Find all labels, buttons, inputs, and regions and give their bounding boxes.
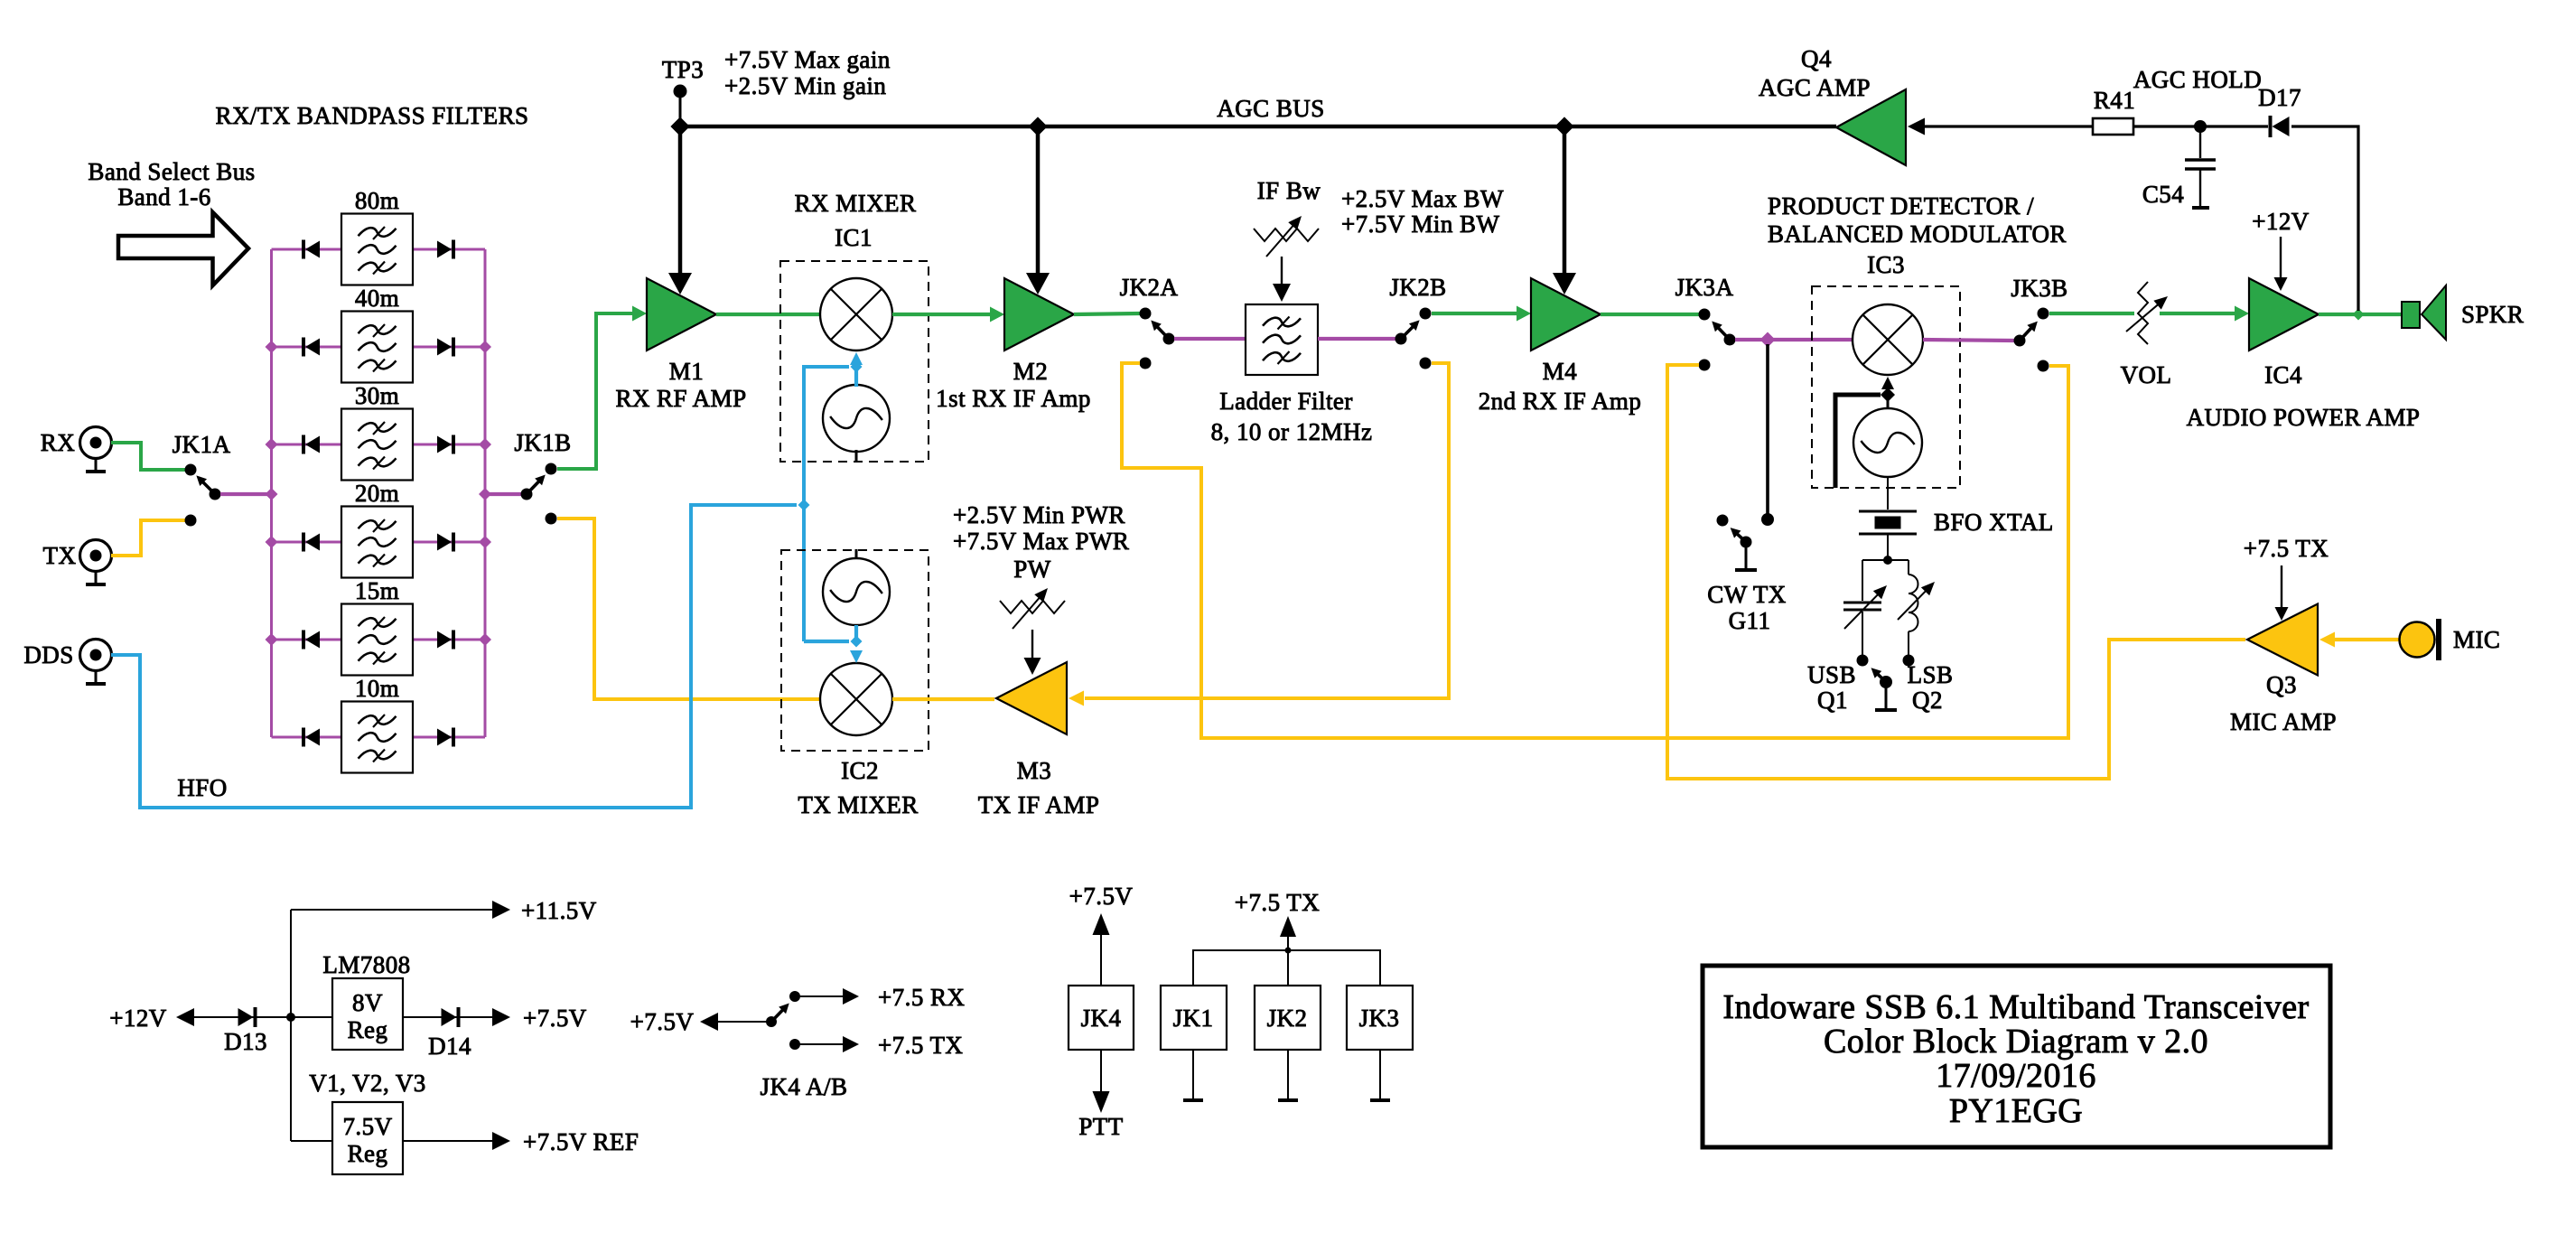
label TX MIXER <box>798 791 918 818</box>
svg-text:20m: 20m <box>355 480 399 507</box>
label Reg (8V) <box>348 1016 388 1043</box>
label V1, V2, V3 <box>309 1070 426 1097</box>
arrow into IC4 (green) <box>2235 306 2249 322</box>
svg-text:HFO: HFO <box>177 774 227 801</box>
wire tank circuit <box>1862 560 1909 655</box>
wire +7.5V to JK4 arm <box>718 1021 771 1023</box>
label JK4 A/B <box>761 1073 848 1100</box>
svg-text:Ladder Filter: Ladder Filter <box>1219 388 1353 415</box>
svg-text:1st RX IF Amp: 1st RX IF Amp <box>936 385 1091 412</box>
svg-text:+7.5 TX: +7.5 TX <box>2244 535 2329 562</box>
block Ladder Filter <box>1246 304 1318 375</box>
svg-text:Q4: Q4 <box>1801 45 1832 72</box>
junction AGC hold <box>2194 120 2207 133</box>
wire CW TX (black) <box>1761 344 1774 526</box>
wire M2 to JK2A (green) <box>1074 313 1140 314</box>
wire 8V Reg to D14 <box>403 1016 492 1018</box>
potentiometer VOL <box>2126 282 2168 344</box>
band select bus arrow <box>118 212 248 285</box>
label 80m <box>355 187 399 214</box>
wire JK3A arm to IC3 (purple) <box>1735 338 1853 341</box>
label 20m <box>355 480 399 507</box>
svg-text:IC2: IC2 <box>841 757 879 784</box>
label IC1 <box>835 224 873 251</box>
svg-text:+7.5V: +7.5V <box>630 1008 695 1035</box>
label D14 <box>428 1033 471 1060</box>
microphone MIC <box>2400 619 2440 660</box>
dashed box IC2 <box>781 550 929 751</box>
svg-text:D17: D17 <box>2258 84 2301 111</box>
junction left bus row 40m <box>266 341 278 353</box>
svg-text:JK4: JK4 <box>1081 1005 1122 1032</box>
svg-text:PRODUCT DETECTOR /: PRODUCT DETECTOR / <box>1768 192 2034 220</box>
diode 15m output <box>437 631 453 650</box>
label 30m <box>355 382 399 409</box>
label USB <box>1807 661 1856 688</box>
label +2.5V Max BW <box>1341 185 1504 212</box>
svg-text:JK2B: JK2B <box>1389 274 1446 301</box>
label +7.5 RX <box>878 984 965 1011</box>
svg-text:+2.5V Min PWR: +2.5V Min PWR <box>953 501 1125 528</box>
label 7.5V <box>342 1113 392 1140</box>
mixer IC1 <box>820 278 892 350</box>
switch JK3A <box>1699 309 1736 371</box>
label 1st RX IF Amp <box>936 385 1091 412</box>
svg-text:IF Bw: IF Bw <box>1257 177 1321 204</box>
svg-text:JK1B: JK1B <box>514 429 571 456</box>
bandpass filter 80m <box>341 214 413 285</box>
arrow into M1 (green) <box>632 306 647 322</box>
wire row 10m left <box>272 736 342 739</box>
svg-text:AUDIO POWER AMP: AUDIO POWER AMP <box>2187 404 2421 431</box>
variable resistor IF Bw <box>1254 216 1319 257</box>
diode 40m input <box>303 338 320 357</box>
arrow +7.5 RX <box>843 988 859 1005</box>
svg-text:PY1EGG: PY1EGG <box>1949 1092 2083 1130</box>
svg-text:Q2: Q2 <box>1912 687 1943 714</box>
wire JK3B lower stub (yellow) <box>2049 366 2068 370</box>
arrow +7.5V (JK4) <box>1093 913 1110 986</box>
wire R41 to Q4 <box>1925 125 2093 127</box>
svg-text:RX MIXER: RX MIXER <box>795 190 917 217</box>
switch CW TX G11 <box>1717 515 1752 569</box>
amplifier M1 RX RF AMP <box>647 278 716 350</box>
svg-text:M3: M3 <box>1017 757 1051 784</box>
svg-text:MIC: MIC <box>2453 626 2500 653</box>
wire row 80m right <box>413 248 485 251</box>
wire row 20m right <box>413 541 485 544</box>
switch JK1B <box>521 463 557 525</box>
svg-text:Indoware SSB 6.1 Multiband Tra: Indoware SSB 6.1 Multiband Transceiver <box>1722 988 2309 1026</box>
label +7.5V Max gain <box>724 46 891 73</box>
wire IC3 mixer to JK3B (purple) <box>1923 340 2014 341</box>
label TP3 <box>662 56 704 83</box>
diode 80m input <box>303 240 320 259</box>
svg-text:IC1: IC1 <box>835 224 873 251</box>
wire RX to JK1A (green) <box>111 443 187 470</box>
svg-text:TX: TX <box>43 542 77 569</box>
wire row 15m right <box>413 639 485 641</box>
wire HFO (blue) <box>111 505 797 808</box>
svg-text:Q1: Q1 <box>1817 687 1848 714</box>
label D17 <box>2258 84 2301 111</box>
wire HFO into IC2 (blue) <box>804 640 849 643</box>
label +7.5V (reg out) <box>523 1005 587 1032</box>
diode D13 <box>238 1007 256 1027</box>
label JK3A <box>1675 274 1734 301</box>
amplifier M4 2nd RX IF Amp <box>1531 278 1601 350</box>
svg-text:15m: 15m <box>355 577 399 604</box>
wire D17 to speaker tap <box>2291 126 2358 311</box>
resistor R41 <box>2093 118 2133 135</box>
junction right bus row 30m <box>479 438 491 451</box>
svg-text:G11: G11 <box>1729 607 1771 634</box>
junction blue IC2 <box>851 636 863 648</box>
switch JK2B <box>1395 308 1432 369</box>
label HFO <box>177 774 227 801</box>
diode 40m output <box>437 338 453 357</box>
svg-text:+11.5V: +11.5V <box>521 897 597 924</box>
wire IC1 osc to mixer (blue) <box>850 352 863 387</box>
svg-text:JK3B: JK3B <box>2011 275 2067 302</box>
arrow +7.5 TX (JK rail) <box>1280 916 1296 950</box>
svg-text:M1: M1 <box>669 358 704 385</box>
label IF Bw <box>1257 177 1321 204</box>
jack JK2 <box>1255 986 1321 1050</box>
wire TX to JK1A (yellow) <box>111 520 187 556</box>
junction right bus row 15m <box>479 633 491 646</box>
wire BFO feedback bracket <box>1835 395 1881 488</box>
arrow +12V (left) <box>176 1008 194 1026</box>
wire IC4 to SPKR (green) <box>2319 313 2402 316</box>
junction +7.5 TX rail <box>1285 948 1292 954</box>
svg-text:AGC BUS: AGC BUS <box>1217 95 1324 122</box>
label +12V <box>2252 208 2310 235</box>
svg-text:+7.5V Min BW: +7.5V Min BW <box>1341 210 1499 238</box>
junction left bus JK1A <box>266 488 278 500</box>
svg-text:MIC AMP: MIC AMP <box>2230 708 2337 735</box>
diode D14 <box>442 1007 459 1027</box>
svg-text:TX MIXER: TX MIXER <box>798 791 918 818</box>
wire AGC bus <box>680 125 1836 129</box>
variable inductor (BFO trim) <box>1898 575 1935 631</box>
junction left bus row 20m <box>266 536 278 548</box>
label +7.5V Min BW <box>1341 210 1499 238</box>
label IC3 <box>1867 251 1905 278</box>
svg-text:+7.5 TX: +7.5 TX <box>1235 889 1320 916</box>
svg-text:PTT: PTT <box>1078 1113 1123 1140</box>
label IC4 <box>2264 361 2302 388</box>
label RX RF AMP <box>615 385 746 412</box>
junction left bus row 15m <box>266 633 278 646</box>
title block <box>1703 966 2330 1147</box>
wire row 20m left <box>272 541 342 544</box>
bandpass filter 15m <box>341 604 413 676</box>
diode D17 <box>2271 116 2290 137</box>
switch JK4 A/B <box>766 991 800 1050</box>
diode 30m input <box>303 435 320 454</box>
label +12V <box>109 1005 167 1032</box>
wire row 15m left <box>272 639 342 641</box>
amplifier Q3 MIC AMP <box>2247 604 2318 676</box>
wire +11.5V feed <box>291 909 492 911</box>
connector TX <box>80 540 112 585</box>
variable capacitor (BFO trim) <box>1843 585 1887 629</box>
junction tank top <box>1883 556 1892 565</box>
label JK3 <box>1359 1005 1400 1032</box>
svg-text:LSB: LSB <box>1908 661 1954 688</box>
bandpass filter 40m <box>341 312 413 383</box>
svg-text:RX RF AMP: RX RF AMP <box>615 385 746 412</box>
wire IC1 mixer to M2 (green) <box>892 313 992 316</box>
svg-text:8V: 8V <box>352 989 383 1016</box>
label LM7808 <box>322 951 410 978</box>
svg-text:+7.5V: +7.5V <box>523 1005 587 1032</box>
label Q1 <box>1817 687 1848 714</box>
diode 20m input <box>303 533 320 552</box>
arrow into M3 (yellow) <box>1069 691 1084 706</box>
junction blue HFO <box>798 500 810 511</box>
ground CW TX <box>1735 568 1757 572</box>
label IC2 <box>841 757 879 784</box>
svg-text:DDS: DDS <box>23 641 73 668</box>
wire IC2 osc to mixer (blue) <box>850 625 863 663</box>
label 8V <box>352 989 383 1016</box>
svg-text:PW: PW <box>1013 556 1050 583</box>
svg-text:JK2A: JK2A <box>1120 274 1179 301</box>
arrow PW to M3 <box>1024 630 1041 675</box>
svg-text:TX IF AMP: TX IF AMP <box>978 791 1100 818</box>
label M3 <box>1017 757 1051 784</box>
variable resistor PW <box>1000 588 1065 629</box>
dashed box IC3 <box>1812 286 1960 488</box>
label RX/TX BANDPASS FILTERS <box>215 102 528 129</box>
wire junction to 8V Reg <box>291 1016 332 1018</box>
test point TP3 <box>674 85 687 127</box>
wire power vertical <box>290 910 292 1141</box>
arrow IF Bw to ladder filter <box>1273 257 1291 302</box>
capacitor C54 <box>2185 126 2216 207</box>
label 2nd RX IF Amp <box>1479 388 1642 415</box>
svg-text:+7.5V REF: +7.5V REF <box>523 1128 639 1155</box>
switch JK1A <box>185 464 221 527</box>
label PRODUCT DETECTOR / <box>1768 192 2034 220</box>
svg-text:+7.5 RX: +7.5 RX <box>878 984 965 1011</box>
label BFO XTAL <box>1934 509 2054 536</box>
svg-text:M2: M2 <box>1013 358 1048 385</box>
svg-text:D14: D14 <box>428 1033 471 1060</box>
junction AGC above M4 <box>1554 117 1573 136</box>
oscillator IC3 BFO <box>1853 408 1922 477</box>
switch JK3B <box>2014 308 2049 372</box>
svg-text:Color Block Diagram v 2.0: Color Block Diagram v 2.0 <box>1824 1023 2208 1061</box>
svg-text:M4: M4 <box>1543 358 1577 385</box>
bandpass filter 10m <box>341 702 413 773</box>
label AGC BUS <box>1217 95 1324 122</box>
label JK2 <box>1267 1005 1308 1032</box>
svg-text:TP3: TP3 <box>662 56 704 83</box>
svg-text:AGC AMP: AGC AMP <box>1759 74 1871 101</box>
bus right vertical (band filters) <box>484 249 487 737</box>
wire row 30m left <box>272 444 342 446</box>
junction blue IC1 <box>851 361 863 373</box>
label M2 <box>1013 358 1048 385</box>
switch USB/LSB Q1 Q2 <box>1857 655 1915 709</box>
label +7.5 TX (Q3) <box>2244 535 2329 562</box>
label JK1A <box>173 431 231 458</box>
wire +7.5 TX rail <box>1193 950 1380 986</box>
svg-text:R41: R41 <box>2094 87 2135 114</box>
svg-text:+7.5V: +7.5V <box>1069 883 1134 910</box>
svg-text:SPKR: SPKR <box>2461 301 2524 328</box>
label RX MIXER <box>795 190 917 217</box>
wire JK2 stub <box>1287 950 1289 986</box>
label BALANCED MODULATOR <box>1768 220 2067 248</box>
wire BFO osc to mixer (black) <box>1881 377 1895 408</box>
diode 80m output <box>437 240 453 259</box>
label +2.5V Min gain <box>724 72 886 99</box>
wire row 10m right <box>413 736 485 739</box>
wire row 40m left <box>272 346 342 349</box>
svg-text:JK2: JK2 <box>1267 1005 1308 1032</box>
label JK1B <box>514 429 571 456</box>
junction right bus JK1B <box>479 488 491 500</box>
svg-text:Band 1-6: Band 1-6 <box>117 183 210 210</box>
svg-text:JK1: JK1 <box>1173 1005 1214 1032</box>
connector RX <box>80 427 112 472</box>
pin IC2 osc top <box>855 549 858 559</box>
wire M4 to JK3A (green) <box>1601 313 1699 316</box>
wire osc to crystal <box>1887 477 1889 509</box>
svg-text:BALANCED MODULATOR: BALANCED MODULATOR <box>1768 220 2067 248</box>
junction purple JK3A <box>1760 332 1776 348</box>
label JK3B <box>2011 275 2067 302</box>
svg-text:Q3: Q3 <box>2266 671 2297 698</box>
svg-text:USB: USB <box>1807 661 1856 688</box>
svg-text:+2.5V Min gain: +2.5V Min gain <box>724 72 886 99</box>
svg-text:JK1A: JK1A <box>173 431 231 458</box>
wire R41 to D17 <box>2133 125 2268 127</box>
label SPKR <box>2461 301 2524 328</box>
arrow +7.5 TX <box>843 1036 859 1052</box>
mixer IC2 <box>820 663 892 735</box>
junction right bus row 40m <box>479 341 491 353</box>
svg-text:80m: 80m <box>355 187 399 214</box>
label 10m <box>355 675 399 702</box>
arrow into M4 (green) <box>1517 306 1531 322</box>
svg-text:30m: 30m <box>355 382 399 409</box>
diode 10m output <box>437 728 453 747</box>
wire JK2B to M3 input (yellow) <box>1085 363 1449 698</box>
svg-text:+12V: +12V <box>109 1005 167 1032</box>
bandpass filter 20m <box>341 507 413 578</box>
wire HFO to IC1 (blue) <box>804 367 849 641</box>
wire row 80m left <box>272 248 342 251</box>
svg-text:RX: RX <box>41 429 75 456</box>
label RX <box>41 429 75 456</box>
label 40m <box>355 285 399 312</box>
svg-text:BFO XTAL: BFO XTAL <box>1934 509 2054 536</box>
label PW <box>1013 556 1050 583</box>
svg-text:JK3A: JK3A <box>1675 274 1734 301</box>
ground JK3 <box>1370 1098 1390 1102</box>
label C54 <box>2142 181 2184 208</box>
diode 10m input <box>303 728 320 747</box>
pin IC1 osc bottom <box>855 450 858 463</box>
label CW TX <box>1707 581 1787 608</box>
svg-text:IC3: IC3 <box>1867 251 1905 278</box>
diode 15m input <box>303 631 320 650</box>
svg-text:+7.5V Max gain: +7.5V Max gain <box>724 46 891 73</box>
label +2.5V Min PWR <box>953 501 1125 528</box>
oscillator IC1 <box>823 385 890 452</box>
regulator 8V Reg <box>332 978 403 1050</box>
label R41 <box>2094 87 2135 114</box>
jack JK3 <box>1347 986 1413 1050</box>
bus left vertical (band filters) <box>270 249 273 737</box>
wire +7.5 RX <box>800 995 843 997</box>
label +7.5V REF <box>523 1128 639 1155</box>
svg-text:Band Select Bus: Band Select Bus <box>88 158 255 185</box>
wire JK2A to TX return (yellow) <box>1122 363 2068 738</box>
svg-text:17/09/2016: 17/09/2016 <box>1936 1057 2096 1095</box>
arrow +12V into IC4 <box>2274 237 2288 291</box>
wire JK3A to Q3 output (yellow) <box>1667 365 2245 779</box>
wire JK1B to M1 (green) <box>557 313 634 469</box>
label PTT <box>1078 1113 1123 1140</box>
wire AGC drop to M1 <box>668 126 692 294</box>
diode 30m output <box>437 435 453 454</box>
svg-text:40m: 40m <box>355 285 399 312</box>
oscillator IC2 <box>823 558 890 625</box>
label MIC <box>2453 626 2500 653</box>
svg-text:2nd RX IF Amp: 2nd RX IF Amp <box>1479 388 1642 415</box>
bandpass filter 30m <box>341 409 413 481</box>
label +7.5V Max PWR <box>953 528 1129 555</box>
svg-text:CW TX: CW TX <box>1707 581 1787 608</box>
wire JK1A arm to bus (purple) <box>220 492 272 496</box>
svg-text:Reg: Reg <box>348 1140 388 1167</box>
amplifier M3 TX IF AMP <box>996 662 1067 734</box>
label JK1 <box>1173 1005 1214 1032</box>
label TX IF AMP <box>978 791 1100 818</box>
label Q3 <box>2266 671 2297 698</box>
arrow +7.5 TX into Q3 <box>2275 565 2289 621</box>
svg-text:Reg: Reg <box>348 1016 388 1043</box>
wire 7.5V Reg to +7.5V REF <box>403 1140 492 1142</box>
regulator 7.5V Reg <box>332 1102 403 1174</box>
svg-text:LM7808: LM7808 <box>322 951 410 978</box>
label +7.5V (JK4 A/B) <box>630 1008 695 1035</box>
junction left bus row 30m <box>266 438 278 451</box>
label 15m <box>355 577 399 604</box>
label MIC AMP <box>2230 708 2337 735</box>
wire AGC drop to M2 <box>1026 126 1050 294</box>
label JK4 <box>1081 1005 1122 1032</box>
connector DDS <box>80 640 112 685</box>
svg-text:RX/TX BANDPASS FILTERS: RX/TX BANDPASS FILTERS <box>215 102 528 129</box>
svg-text:AGC HOLD: AGC HOLD <box>2133 66 2262 93</box>
label AUDIO POWER AMP <box>2187 404 2421 431</box>
label +7.5 TX <box>878 1032 963 1059</box>
label AGC HOLD <box>2133 66 2262 93</box>
label Reg (7.5V) <box>348 1140 388 1167</box>
label +11.5V <box>521 897 597 924</box>
svg-text:JK3: JK3 <box>1359 1005 1400 1032</box>
svg-text:8, 10 or 12MHz: 8, 10 or 12MHz <box>1211 418 1373 445</box>
wire JK1B to TX mixer (yellow) <box>557 519 822 699</box>
label JK2A <box>1120 274 1179 301</box>
